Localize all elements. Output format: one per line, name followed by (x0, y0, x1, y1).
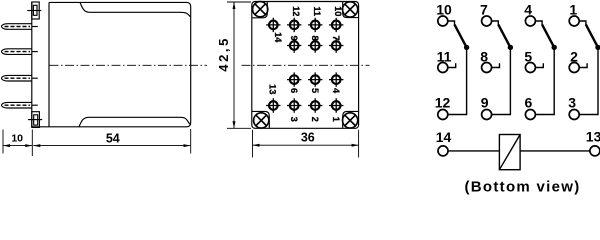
bottom cover seam (79, 117, 190, 126)
centerline (bottom view) (242, 64, 370, 66)
extension line left (2, 130, 4, 154)
pin 14 terminal (438, 146, 448, 156)
mounting hole M3 (bottom-left) (254, 113, 269, 128)
svg-text:(Bottom view): (Bottom view) (464, 178, 580, 195)
svg-text:3: 3 (289, 117, 299, 122)
pin 2 pad (308, 98, 322, 112)
dimension 42,5 (216, 2, 236, 128)
pole C: contact 4-5-6 (525, 16, 557, 120)
svg-text:7: 7 (331, 36, 341, 41)
svg-text:6: 6 (525, 95, 533, 111)
pin 4 pad (329, 72, 343, 86)
wire coil to 13 (520, 150, 590, 152)
svg-text:4: 4 (524, 1, 532, 17)
svg-text:4: 4 (331, 88, 341, 94)
mounting hole M1 (top-left) (253, 2, 268, 17)
pin 12 terminal (438, 110, 448, 120)
svg-text:36: 36 (301, 130, 315, 144)
svg-text:54: 54 (106, 131, 120, 145)
svg-text:8: 8 (480, 48, 488, 64)
corner boss line bottom-right (343, 111, 359, 128)
svg-text:9: 9 (289, 36, 299, 41)
svg-text:12: 12 (435, 95, 451, 111)
pin 6 pad (287, 72, 301, 86)
pin 13 terminal (590, 146, 600, 156)
svg-text:3: 3 (568, 95, 576, 111)
extension line pin base (31, 130, 33, 157)
blade terminal B1 (2, 24, 38, 30)
svg-text:5: 5 (524, 48, 532, 64)
svg-text:1: 1 (331, 117, 341, 122)
svg-text:10: 10 (11, 132, 23, 144)
top cover seam (80, 3, 190, 17)
extension line 36 right (358, 130, 360, 158)
terminal pin P6 (edge-on, bottom) (28, 112, 42, 128)
dimension 54 (33, 131, 190, 147)
centerline (side view) (50, 64, 208, 66)
svg-text:6: 6 (289, 88, 299, 93)
svg-text:7: 7 (480, 1, 488, 17)
pin 3 pad (287, 98, 301, 112)
svg-text:10: 10 (333, 6, 343, 16)
svg-text:13: 13 (586, 129, 600, 145)
pole A: contact 10-11-12 (438, 16, 470, 120)
movable contact blade A (455, 25, 467, 48)
pin 7 pad (329, 38, 343, 52)
blade terminal B2 (2, 49, 38, 55)
extension line body right (190, 129, 192, 154)
schematic poles (438, 16, 600, 170)
dimension 36 (253, 130, 359, 146)
pin 10 pad (329, 18, 343, 32)
svg-text:10: 10 (436, 1, 452, 17)
pin 5 pad (308, 72, 322, 86)
pin 12 pad (287, 18, 301, 32)
svg-text:12: 12 (291, 6, 301, 16)
mounting hole M2 (top-right) (343, 2, 358, 17)
blade terminal B3 (2, 75, 38, 81)
corner boss line bottom-left (252, 111, 269, 128)
pin 1 pad (329, 98, 343, 112)
blade terminal B4 (2, 102, 38, 108)
pole D: contact 1-2-3 (569, 16, 600, 120)
wire 14 to coil (448, 150, 499, 152)
svg-text:8: 8 (310, 36, 320, 41)
pin 13 pad (266, 98, 280, 112)
pin base line (31, 2, 33, 127)
svg-text:11: 11 (437, 48, 452, 64)
svg-text:42,5: 42,5 (216, 36, 231, 72)
svg-text:11: 11 (312, 6, 322, 16)
extension line 42,5 top (227, 1, 251, 3)
svg-text:1: 1 (569, 1, 577, 17)
svg-text:5: 5 (310, 88, 320, 93)
terminal pin P1 (edge-on, top) (27, 2, 41, 19)
pin 8 pad (308, 38, 322, 52)
corner boss line top-right (343, 2, 359, 18)
pin 10 terminal (438, 16, 448, 26)
pin 11 pad (308, 18, 322, 32)
coil K1 (499, 135, 520, 170)
common wire to pin 12 (448, 47, 467, 114)
wire stub pin 10 (448, 21, 455, 25)
extension line 42,5 bottom (227, 127, 251, 129)
NO contact hook pin 11 (448, 63, 456, 67)
svg-text:14: 14 (273, 32, 283, 43)
svg-text:2: 2 (310, 117, 320, 122)
mounting hole M4 (bottom-right) (343, 113, 358, 128)
bottom view plate outline (252, 2, 359, 129)
svg-text:13: 13 (268, 84, 278, 94)
extension line 36 left (252, 130, 254, 158)
corner boss line top-left (252, 2, 267, 18)
svg-text:9: 9 (481, 95, 489, 111)
dimension 10 (3, 132, 32, 147)
pin 11 terminal (438, 63, 448, 73)
svg-text:2: 2 (570, 48, 578, 64)
pin 9 pad (287, 38, 301, 52)
junction node A (464, 45, 469, 50)
relay body side view outline (32, 2, 191, 126)
pole B: contact 7-8-9 (482, 16, 513, 120)
pin 14 pad (266, 18, 280, 32)
svg-text:14: 14 (436, 129, 452, 145)
